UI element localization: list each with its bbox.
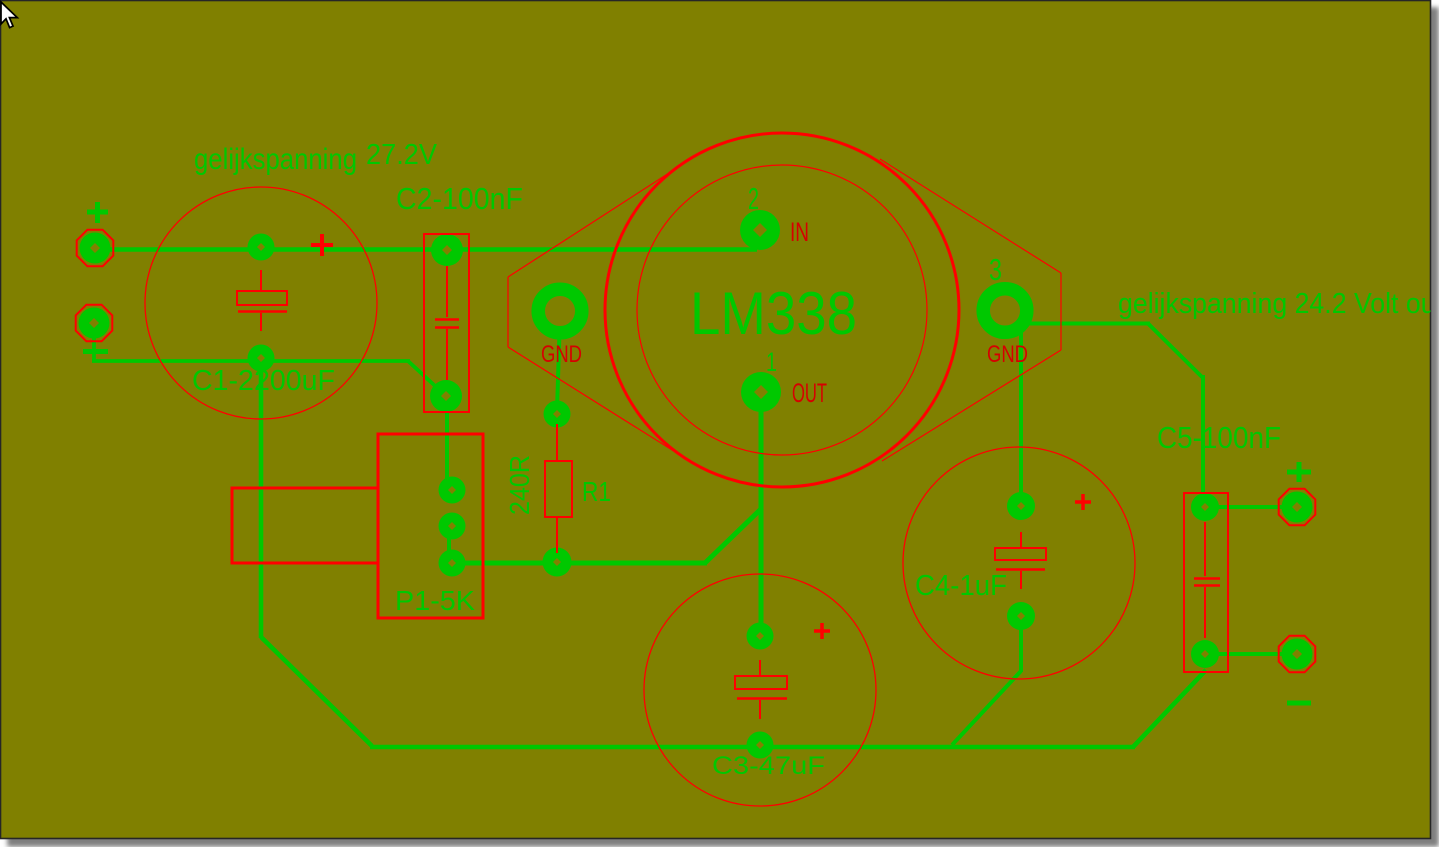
svg-text:C2-100nF: C2-100nF xyxy=(396,181,523,216)
svg-text:C5-100nF: C5-100nF xyxy=(1157,420,1281,455)
svg-text:LM338: LM338 xyxy=(690,280,857,347)
svg-text:27.2V: 27.2V xyxy=(366,139,438,171)
svg-text:240R: 240R xyxy=(504,455,535,515)
svg-text:C4-1uF: C4-1uF xyxy=(915,570,1007,602)
svg-text:R1: R1 xyxy=(582,476,611,507)
svg-text:OUT: OUT xyxy=(792,378,827,408)
svg-text:IN: IN xyxy=(790,217,809,247)
svg-text:1: 1 xyxy=(766,347,777,377)
svg-text:2: 2 xyxy=(748,181,759,216)
svg-text:P1-5K: P1-5K xyxy=(395,585,475,616)
svg-text:3: 3 xyxy=(989,252,1002,287)
svg-text:GND: GND xyxy=(987,341,1028,368)
svg-text:C3-47uF: C3-47uF xyxy=(712,752,825,780)
svg-text:gelijkspanning 24.2 Volt out: gelijkspanning 24.2 Volt out xyxy=(1118,288,1439,320)
svg-text:gelijkspanning: gelijkspanning xyxy=(194,143,357,176)
svg-text:GND: GND xyxy=(541,341,582,368)
svg-text:C1-2200uF: C1-2200uF xyxy=(192,365,335,397)
